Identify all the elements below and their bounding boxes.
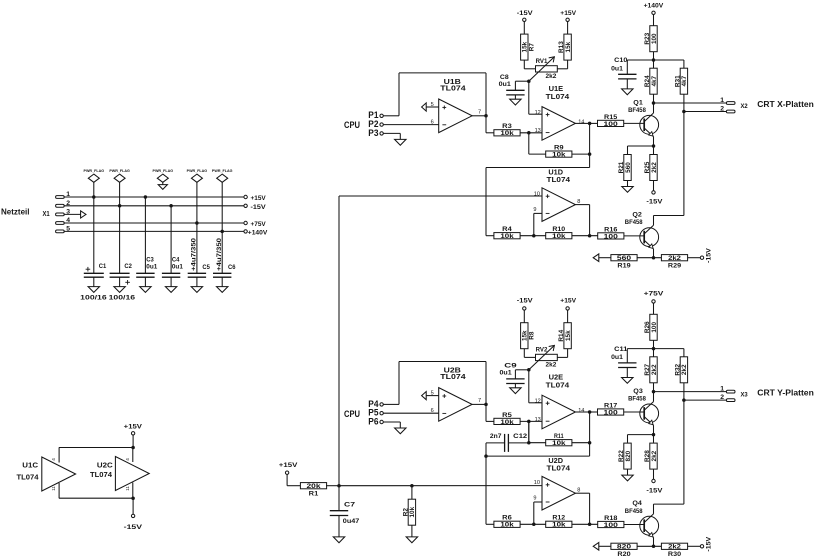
wire +140V rail bbox=[64, 230, 244, 232]
wire rail to C2 bbox=[119, 206, 121, 273]
svg-text:+75V: +75V bbox=[251, 221, 267, 228]
U2C pin 11 stub bbox=[132, 483, 134, 499]
op-amp U1C TL074 power unit bbox=[42, 457, 76, 491]
resistor R22 820 bbox=[624, 443, 631, 469]
connector X1 pin 3 pad bbox=[56, 213, 65, 216]
wire arrow to R19 bbox=[599, 257, 611, 259]
svg-text:4k7: 4k7 bbox=[651, 75, 658, 86]
wire feedback loop top bbox=[399, 361, 486, 363]
junction R9 right bbox=[588, 152, 592, 156]
capacitor C5 +4u7/350 bbox=[188, 272, 206, 274]
svg-text:100: 100 bbox=[604, 522, 619, 529]
svg-text:2: 2 bbox=[720, 394, 724, 401]
resistor R15 100 bbox=[598, 120, 624, 126]
resistor R25 2k2 bbox=[653, 146, 655, 154]
resistor R7 15k bbox=[521, 34, 528, 60]
wire Q3 emitter down bbox=[653, 425, 655, 434]
svg-text:Q3: Q3 bbox=[633, 388, 643, 395]
wire up to U1D pin 9 bbox=[533, 213, 535, 235]
junction Q3 emitter node bbox=[652, 433, 656, 437]
op-amp U2C TL074 power unit bbox=[115, 457, 149, 491]
svg-text:R26: R26 bbox=[644, 321, 651, 333]
resistor R18 100 bbox=[598, 521, 624, 527]
svg-text:0u1: 0u1 bbox=[499, 81, 512, 88]
terminal +75V bbox=[244, 221, 247, 224]
wire rail to C6 bbox=[221, 231, 223, 273]
svg-text:R21: R21 bbox=[618, 161, 625, 173]
U2E pin 14 output wire bbox=[575, 411, 589, 413]
transistor Q4 BF458 bbox=[640, 516, 659, 535]
junction on rail at C3 column bbox=[144, 195, 148, 199]
connector X3 pin 2 pad bbox=[726, 399, 735, 402]
op-amp U1B TL074 bbox=[439, 99, 472, 133]
junction inverting node of U2E bbox=[527, 420, 531, 424]
wire arrow to R20 bbox=[599, 545, 611, 547]
svg-text:100: 100 bbox=[604, 409, 619, 416]
svg-text:100: 100 bbox=[651, 33, 658, 44]
connector X1 pin 5 pad bbox=[56, 230, 65, 233]
svg-text:R10: R10 bbox=[552, 226, 565, 233]
resistor R21 560 bbox=[624, 155, 631, 181]
svg-text:PWR_FLAG: PWR_FLAG bbox=[153, 169, 174, 173]
wire R30 to -15V bbox=[688, 545, 701, 547]
ground below C2 bbox=[119, 277, 121, 286]
wire R24 to plate node bbox=[653, 94, 655, 103]
wire plate 2 node down to Q4 collector bbox=[683, 400, 685, 504]
svg-text:7: 7 bbox=[478, 110, 481, 116]
feedback arrow label left bbox=[593, 254, 599, 262]
wire output node down bbox=[589, 412, 591, 456]
terminal +15V bbox=[244, 195, 247, 198]
wire emitter node to R21 bbox=[628, 145, 654, 147]
svg-text:X2: X2 bbox=[741, 103, 748, 110]
svg-text:1: 1 bbox=[720, 97, 724, 104]
wire R17 to Q3 base bbox=[624, 411, 645, 413]
svg-text:-15V: -15V bbox=[706, 536, 713, 551]
svg-text:+15V: +15V bbox=[560, 297, 576, 304]
wire inverting node down to C12 node bbox=[528, 421, 530, 442]
no-connect arrow on X1 pin 3 bbox=[81, 211, 86, 218]
ground below GND power flag bbox=[162, 182, 164, 184]
junction at U1B output bbox=[484, 114, 488, 118]
svg-text:10: 10 bbox=[534, 192, 540, 198]
wire P4 to feedback loop bbox=[383, 403, 399, 405]
svg-text:R28: R28 bbox=[644, 450, 651, 462]
capacitor C2 100/16 bbox=[110, 272, 130, 274]
wire flag to +15V rail bbox=[93, 182, 95, 197]
wire P2 to inverting input bbox=[383, 124, 438, 126]
svg-text:560: 560 bbox=[617, 255, 632, 262]
svg-text:PWR_FLAG: PWR_FLAG bbox=[187, 169, 208, 173]
wire junction to C10 bbox=[627, 59, 653, 61]
wire feedback loop down to output bbox=[485, 73, 487, 116]
U1C pin 4 stub bbox=[58, 448, 60, 463]
svg-text:13: 13 bbox=[535, 128, 541, 134]
svg-text:C5: C5 bbox=[202, 264, 210, 271]
junction U2D output node bbox=[588, 523, 592, 527]
wire output node to R17 bbox=[590, 411, 598, 413]
transistor Q2 BF458 bbox=[640, 228, 659, 247]
terminal -15V below U2C bbox=[131, 514, 134, 517]
svg-text:R20: R20 bbox=[617, 551, 631, 556]
svg-text:CRT X-Platten: CRT X-Platten bbox=[757, 100, 814, 109]
resistor R16 100 bbox=[598, 233, 624, 239]
resistor R23 100 bbox=[650, 26, 657, 52]
wire C12 left to corner bbox=[486, 442, 505, 444]
connector X1 pin 1 pad bbox=[56, 196, 65, 199]
U1C pin 11 stub bbox=[58, 483, 60, 498]
resistor R6 10k bbox=[494, 521, 520, 527]
wire flag to +75V rail bbox=[196, 182, 198, 223]
wire R20 to emitter junction bbox=[637, 545, 661, 547]
ground below C7 bbox=[338, 516, 340, 537]
wire R3 to inverting node bbox=[520, 132, 542, 134]
resistor R30 2k2 bbox=[661, 543, 687, 549]
svg-text:C10: C10 bbox=[614, 57, 628, 64]
svg-text:0u1: 0u1 bbox=[611, 65, 623, 72]
svg-text:11: 11 bbox=[51, 486, 56, 491]
wire junction to R32 bbox=[654, 348, 684, 350]
junction on rail at C4 column bbox=[169, 204, 173, 208]
svg-text:-15V: -15V bbox=[251, 204, 267, 211]
wire R10 right bbox=[572, 235, 598, 237]
junction below R23 bbox=[652, 58, 656, 62]
junction C12 corner bbox=[484, 454, 488, 458]
ground below C9 bbox=[514, 384, 516, 388]
wire output node to R15 bbox=[590, 122, 598, 124]
svg-text:+4u7/350: +4u7/350 bbox=[191, 237, 198, 271]
junction plate 2 node bbox=[682, 110, 686, 114]
svg-text:0u1: 0u1 bbox=[611, 354, 623, 361]
wire R25 to -15V bbox=[653, 181, 655, 191]
resistor R26 100 bbox=[650, 314, 657, 340]
wire emitter node to R22 bbox=[628, 434, 654, 436]
ground below C4 bbox=[170, 277, 172, 286]
svg-text:560: 560 bbox=[625, 162, 632, 173]
svg-text:R19: R19 bbox=[617, 262, 631, 269]
svg-text:TL074: TL074 bbox=[546, 381, 570, 390]
wire R23 down bbox=[653, 52, 655, 69]
terminal -15V below R25 bbox=[652, 191, 655, 194]
svg-text:2n7: 2n7 bbox=[490, 433, 502, 440]
wire bias node right to U2D pin 10 bbox=[339, 485, 542, 487]
svg-text:2k2: 2k2 bbox=[681, 364, 688, 375]
junction on rail at C6 column bbox=[220, 230, 224, 234]
op-amp U1E TL074 bbox=[542, 107, 575, 141]
svg-text:-15V: -15V bbox=[517, 297, 533, 304]
wire R27 to plate node bbox=[653, 383, 655, 392]
svg-text:R2: R2 bbox=[402, 508, 409, 517]
svg-text:TL074: TL074 bbox=[440, 84, 465, 93]
wire R29 to -15V bbox=[688, 257, 701, 259]
connector X2 pin 2 pad bbox=[726, 110, 735, 113]
svg-text:-15V: -15V bbox=[646, 199, 663, 206]
svg-text:TL074: TL074 bbox=[547, 463, 571, 472]
svg-text:15k: 15k bbox=[565, 41, 572, 52]
svg-text:10k: 10k bbox=[409, 506, 416, 517]
svg-text:+4u7/350: +4u7/350 bbox=[216, 237, 223, 271]
wire +75V rail bbox=[64, 222, 244, 224]
junction U1D output node bbox=[588, 234, 592, 238]
svg-text:100/16: 100/16 bbox=[80, 294, 107, 301]
svg-text:2k2: 2k2 bbox=[546, 362, 557, 369]
svg-text:0u1: 0u1 bbox=[172, 264, 183, 271]
resistor R13 15k bbox=[564, 34, 571, 60]
svg-text:RV2: RV2 bbox=[536, 347, 548, 354]
junction wiper / C9 node bbox=[527, 368, 531, 372]
wire feedback loop up bbox=[398, 362, 400, 405]
wire output node down bbox=[589, 123, 591, 167]
svg-text:R12: R12 bbox=[552, 515, 565, 522]
wire down to R4 bbox=[485, 168, 487, 236]
resistor R12 10k bbox=[546, 521, 572, 527]
wire R18 to Q4 base bbox=[624, 524, 645, 526]
wire node to C8 bbox=[515, 80, 528, 82]
svg-text:Q4: Q4 bbox=[632, 500, 642, 507]
svg-text:C2: C2 bbox=[124, 263, 132, 270]
junction plate 1 node bbox=[652, 101, 656, 105]
potentiometer RV1 2k2 bbox=[536, 66, 558, 72]
junction wiper / C8 node bbox=[527, 79, 531, 83]
wire R9 to output node bbox=[572, 153, 590, 155]
svg-text:R3: R3 bbox=[502, 123, 512, 130]
svg-text:Q2: Q2 bbox=[632, 212, 642, 219]
junction V+ rail bbox=[131, 446, 135, 450]
resistor R5 10k bbox=[494, 418, 520, 424]
svg-text:2k2: 2k2 bbox=[651, 450, 658, 461]
svg-text:R18: R18 bbox=[604, 515, 618, 522]
svg-text:C12: C12 bbox=[513, 433, 527, 440]
ground below R2 bbox=[411, 525, 413, 537]
resistor R17 100 bbox=[598, 409, 624, 415]
wire rail to C3 bbox=[144, 197, 146, 273]
wire P1 to feedback loop bbox=[383, 115, 399, 117]
svg-text:P3: P3 bbox=[368, 128, 378, 138]
svg-text:PWR_FLAG: PWR_FLAG bbox=[212, 169, 233, 173]
op-amp U1D TL074 bbox=[542, 188, 575, 222]
wire +15V down to R1 bbox=[286, 474, 288, 485]
connector X1 pin 4 pad bbox=[56, 222, 65, 225]
ground below R21 bbox=[627, 181, 629, 187]
svg-text:R15: R15 bbox=[604, 114, 618, 121]
wire down to R6 bbox=[485, 456, 487, 524]
svg-text:11: 11 bbox=[125, 486, 130, 491]
svg-text:5: 5 bbox=[431, 102, 434, 108]
svg-text:TL074: TL074 bbox=[17, 472, 39, 481]
svg-text:5: 5 bbox=[431, 390, 434, 396]
RV1 wiper arrow bbox=[529, 57, 555, 81]
wire across to second stage bbox=[486, 167, 590, 169]
ground below C5 bbox=[196, 277, 198, 286]
svg-text:BF458: BF458 bbox=[628, 107, 646, 114]
svg-text:8: 8 bbox=[577, 488, 580, 494]
svg-text:X1: X1 bbox=[43, 211, 50, 218]
op-amp U2D TL074 bbox=[542, 476, 575, 510]
wire Q2 emitter to rail bbox=[653, 249, 655, 258]
svg-text:2: 2 bbox=[720, 105, 724, 112]
ground below P3 bbox=[399, 133, 401, 139]
wire plate 1 to connector X3 bbox=[654, 391, 727, 393]
wire R1 to bias node bbox=[326, 485, 339, 487]
svg-text:-15V: -15V bbox=[124, 524, 143, 531]
svg-text:C8: C8 bbox=[500, 74, 509, 81]
junction bias node bbox=[337, 484, 341, 488]
wire feedback loop down to output bbox=[485, 362, 487, 405]
wire pin 8 down to feedback junction bbox=[589, 493, 591, 524]
svg-text:+15V: +15V bbox=[560, 10, 576, 17]
wire plate 2 to connector X2 bbox=[684, 111, 727, 113]
svg-text:2k2: 2k2 bbox=[651, 364, 658, 375]
wire R7 to RV1 bbox=[523, 60, 525, 69]
wire R4 to U1D inverting node bbox=[520, 235, 546, 237]
wire R13 to RV1 bbox=[567, 60, 569, 69]
wire feedback loop up bbox=[398, 73, 400, 116]
wire Q4 emitter to rail bbox=[653, 538, 655, 547]
wire P6 stub bbox=[383, 421, 400, 423]
capacitor C11 0u1 bbox=[618, 362, 636, 364]
ground below C8 bbox=[514, 95, 516, 99]
wire plate 2 to connector X3 bbox=[684, 399, 727, 401]
svg-text:X3: X3 bbox=[741, 392, 748, 399]
feedback wire down to R9 bbox=[528, 133, 530, 154]
capacitor C4 0u1 bbox=[162, 272, 180, 274]
resistor R10 10k bbox=[546, 233, 572, 239]
resistor R31 4k7 bbox=[680, 68, 687, 94]
svg-text:15k: 15k bbox=[565, 330, 572, 341]
svg-text:C7: C7 bbox=[344, 502, 355, 509]
wire V- rail U1C-U2C bbox=[59, 497, 133, 499]
svg-text:10k: 10k bbox=[552, 440, 566, 447]
wire junction to R31 bbox=[654, 59, 684, 61]
junction on rail at C2 column bbox=[118, 204, 122, 208]
svg-text:6: 6 bbox=[431, 408, 434, 414]
U1D pin 8 output wire bbox=[575, 204, 589, 206]
U1E pin 14 output wire bbox=[575, 122, 589, 124]
op-amp U2E TL074 bbox=[542, 395, 575, 429]
svg-text:R7: R7 bbox=[528, 43, 535, 52]
svg-text:0u1: 0u1 bbox=[146, 264, 157, 271]
svg-text:R23: R23 bbox=[644, 32, 651, 44]
svg-text:100: 100 bbox=[604, 233, 619, 240]
wire +15V to V+ rail bbox=[132, 435, 134, 448]
capacitor C6 +4u7/350 bbox=[213, 272, 231, 274]
svg-text:14: 14 bbox=[578, 119, 584, 125]
svg-text:TL074: TL074 bbox=[440, 372, 465, 381]
wire +75V to R26 bbox=[653, 303, 655, 314]
svg-text:10k: 10k bbox=[552, 522, 566, 529]
svg-text:4: 4 bbox=[51, 458, 56, 461]
svg-text:-15V: -15V bbox=[517, 10, 533, 17]
resistor R8 15k bbox=[521, 323, 528, 349]
wire pin 8 down to feedback junction bbox=[589, 205, 591, 236]
wire R19 to emitter junction bbox=[637, 257, 661, 259]
svg-text:BF458: BF458 bbox=[628, 395, 646, 402]
wire R8 to RV2 bbox=[523, 349, 525, 358]
resistor R29 2k2 bbox=[661, 255, 687, 261]
transistor Q3 BF458 bbox=[640, 404, 659, 423]
svg-text:10k: 10k bbox=[500, 233, 514, 240]
wire plate 1 to connector X2 bbox=[654, 102, 727, 104]
wire V+ rail U1C-U2C bbox=[59, 447, 133, 449]
svg-text:BF458: BF458 bbox=[625, 508, 643, 515]
svg-text:4k7: 4k7 bbox=[681, 75, 688, 86]
svg-text:C6: C6 bbox=[228, 264, 236, 271]
wire feedback loop top bbox=[399, 72, 486, 74]
svg-text:CPU: CPU bbox=[344, 409, 360, 419]
wire -15V to R7 bbox=[523, 22, 525, 35]
svg-text:R17: R17 bbox=[604, 402, 618, 409]
junction inverting node of U1E bbox=[527, 131, 531, 135]
resistor R9 10k bbox=[546, 151, 572, 157]
capacitor C9 0u1 bbox=[506, 378, 524, 380]
svg-text:R14: R14 bbox=[558, 329, 565, 341]
svg-text:820: 820 bbox=[625, 450, 632, 461]
wire Q1 emitter down bbox=[653, 137, 655, 146]
capacitor C3 0u1 bbox=[136, 272, 154, 274]
capacitor C10 0u1 bbox=[618, 73, 636, 75]
resistor R4 10k bbox=[494, 233, 520, 239]
RV2 wiper arrow bbox=[529, 345, 555, 369]
svg-text:8: 8 bbox=[577, 199, 580, 205]
svg-text:CRT Y-Platten: CRT Y-Platten bbox=[757, 388, 814, 397]
junction R11 right bbox=[588, 441, 592, 445]
junction V- rail bbox=[131, 496, 135, 500]
svg-text:TL074: TL074 bbox=[546, 92, 570, 101]
svg-text:+140V: +140V bbox=[644, 2, 664, 9]
terminal -15V rail end bbox=[700, 256, 703, 259]
svg-text:1: 1 bbox=[720, 385, 724, 392]
wire R31 to plate 2 node bbox=[683, 94, 685, 111]
svg-text:7: 7 bbox=[478, 398, 481, 404]
svg-text:R30: R30 bbox=[668, 551, 682, 556]
svg-text:4: 4 bbox=[125, 458, 130, 461]
wire Q1 collector to plate 1 bbox=[653, 103, 655, 113]
svg-text:R8: R8 bbox=[528, 331, 535, 340]
capacitor C12 2n7 bbox=[508, 442, 528, 444]
wire rail to C4 bbox=[170, 206, 172, 273]
wire flag to -15V rail bbox=[119, 182, 121, 206]
svg-text:2k2: 2k2 bbox=[651, 162, 658, 173]
feedback arrow label left bbox=[593, 543, 599, 551]
wire U2B output down to R5 bbox=[485, 404, 487, 421]
junction C12/R11 node bbox=[527, 441, 531, 445]
svg-text:20k: 20k bbox=[307, 483, 322, 490]
svg-text:+15V: +15V bbox=[124, 424, 143, 431]
junction Q2 emitter rail bbox=[652, 256, 656, 260]
wire R12 right bbox=[572, 523, 598, 525]
wire node to C9 bbox=[515, 369, 528, 371]
svg-text:+15V: +15V bbox=[279, 462, 298, 469]
svg-text:2k2: 2k2 bbox=[668, 544, 681, 551]
resistor R3 10k bbox=[494, 130, 520, 136]
svg-text:PWR_FLAG: PWR_FLAG bbox=[84, 169, 105, 173]
wire R32 to plate 2 node bbox=[683, 383, 685, 400]
U2B non-inverting input arrow label bbox=[422, 392, 427, 400]
junction on rail at C5 column bbox=[195, 221, 199, 225]
svg-text:10k: 10k bbox=[500, 419, 514, 426]
connector X2 pin 1 pad bbox=[726, 102, 735, 105]
wire +140V to R23 bbox=[653, 15, 655, 26]
terminal -15V below R28 bbox=[652, 479, 655, 482]
svg-text:PWR_FLAG: PWR_FLAG bbox=[109, 169, 130, 173]
wire R11 to output node bbox=[572, 442, 590, 444]
connector X1 pin 2 pad bbox=[56, 204, 65, 207]
wire U1B output down to R3 bbox=[485, 116, 487, 133]
terminal +15V above U2C bbox=[131, 432, 134, 435]
svg-text:100: 100 bbox=[604, 121, 619, 128]
svg-text:100/16: 100/16 bbox=[109, 294, 136, 301]
svg-text:-15V: -15V bbox=[646, 487, 663, 494]
